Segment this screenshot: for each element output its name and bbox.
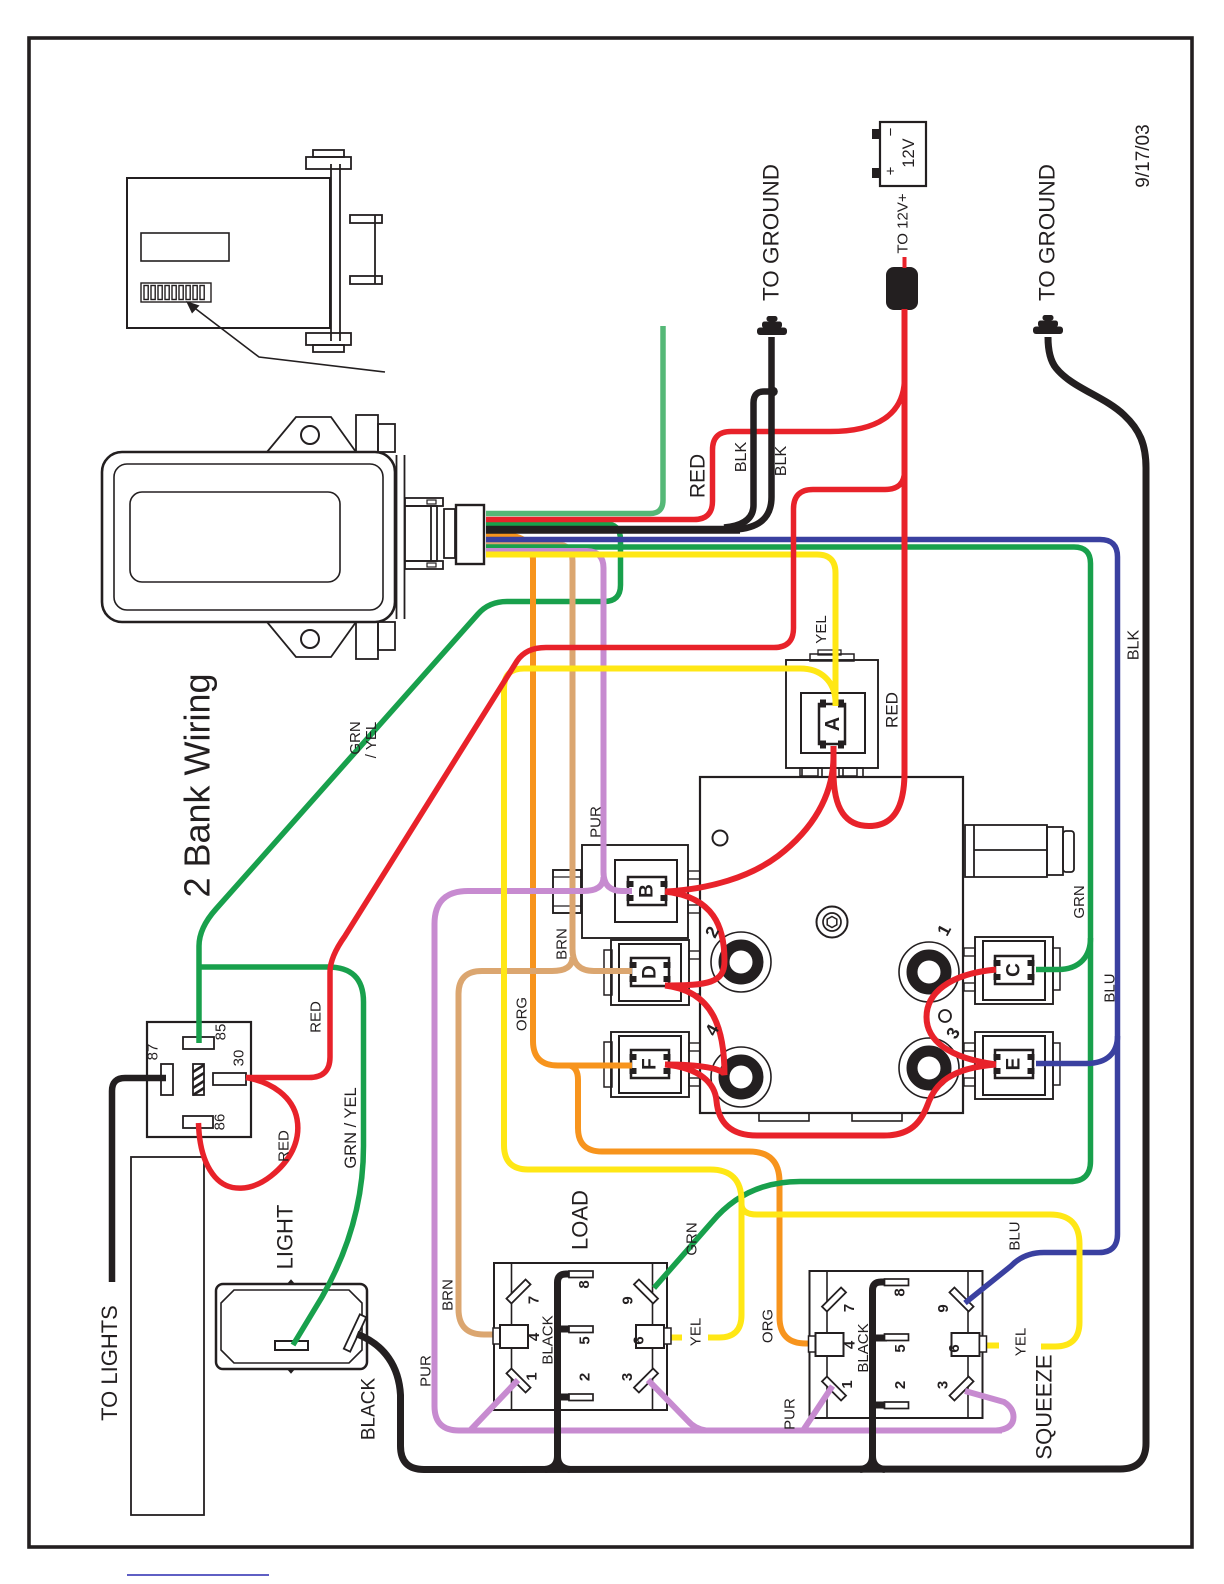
battery negative terminal bbox=[872, 129, 881, 139]
wire BLACK harness ground run bbox=[486, 526, 740, 534]
battery positive terminal bbox=[872, 168, 881, 178]
mounting rail right of control box bbox=[306, 150, 382, 352]
relay pin 30 bbox=[213, 1073, 246, 1085]
svg-text:85: 85 bbox=[213, 1024, 230, 1041]
port 1 bbox=[899, 942, 959, 1002]
wire RED feed to relay 30 bbox=[246, 471, 905, 1078]
svg-text:PUR: PUR bbox=[782, 1398, 799, 1430]
LOAD pin 6 box bbox=[636, 1325, 671, 1348]
svg-text:TO GROUND: TO GROUND bbox=[1035, 164, 1060, 301]
svg-text:BLK: BLK bbox=[1126, 630, 1143, 661]
svg-text:−: − bbox=[883, 127, 900, 136]
relay pin 85 bbox=[183, 1037, 214, 1049]
svg-text:YEL: YEL bbox=[813, 615, 830, 643]
relay pin 86 bbox=[183, 1116, 213, 1128]
wire PUR branch to SQUEEZE 1 bbox=[803, 1386, 833, 1431]
wire GRN harness to C coil and LOAD 9 (long green) bbox=[486, 547, 1091, 1288]
wire BLACK SQUEEZE bus tick pin2 bbox=[871, 1402, 887, 1409]
svg-text:E: E bbox=[1004, 1058, 1025, 1071]
connector shroud bbox=[405, 506, 437, 561]
LIGHT switch side terminal slot bbox=[344, 1314, 366, 1351]
valve top tabs bbox=[802, 768, 863, 777]
SQUEEZE pin 5 slot bbox=[885, 1334, 909, 1341]
svg-text:BLACK: BLACK bbox=[855, 1323, 872, 1372]
svg-text:30: 30 bbox=[231, 1050, 248, 1067]
wire YEL stub at SQUEEZE pin 6 bbox=[979, 1343, 999, 1349]
wire YEL A coil to LOAD 6 bbox=[504, 669, 836, 1338]
solenoid F bbox=[604, 1032, 700, 1097]
wire BLACK LOAD bus tick pin2 bbox=[556, 1394, 572, 1401]
wire GRN branch to C coil pin bbox=[1036, 938, 1091, 970]
SQUEEZE pin digits bbox=[839, 1288, 963, 1389]
receiver control box (top left) bbox=[127, 178, 330, 328]
valve bottom tabs bbox=[759, 1113, 902, 1121]
wire GRN/YEL harness to relay 85 bbox=[199, 524, 621, 1044]
wire BLACK SQUEEZE bus bbox=[873, 1282, 900, 1466]
svg-text:GRN / YEL: GRN / YEL bbox=[342, 1087, 360, 1168]
DIP switch pointer arrow bbox=[192, 306, 385, 372]
svg-text:2 Bank Wiring: 2 Bank Wiring bbox=[177, 673, 218, 897]
svg-text:F: F bbox=[640, 1058, 661, 1070]
svg-text:BLK: BLK bbox=[733, 442, 750, 473]
svg-text:GRN: GRN bbox=[347, 721, 364, 754]
wire BRN branch to LOAD 4 bbox=[459, 957, 573, 1335]
solenoid C bbox=[964, 937, 1060, 1004]
junction dot BLK bbox=[768, 387, 778, 397]
svg-text:ORG: ORG bbox=[514, 997, 531, 1031]
svg-text:RED: RED bbox=[687, 454, 710, 498]
wire RED B to D via port 2 bbox=[665, 892, 725, 986]
wire BLU branch to E coil pin bbox=[1036, 1036, 1118, 1064]
wire RED U-turn into A coil bbox=[834, 746, 905, 826]
relief valve cylinder bbox=[965, 825, 1074, 877]
svg-text:GRN: GRN bbox=[1071, 885, 1088, 918]
svg-text:/ YEL: / YEL bbox=[363, 722, 380, 758]
relay pin 87 bbox=[161, 1064, 173, 1095]
wire RED battery feed vertical bbox=[902, 309, 908, 778]
receiver module (2-bank control unit) bbox=[102, 452, 395, 622]
svg-text:PUR: PUR bbox=[418, 1355, 435, 1387]
svg-text:LIGHT: LIGHT bbox=[273, 1205, 298, 1270]
wire BLK to ground symbol bbox=[734, 337, 772, 530]
SQUEEZE pin 2 slot bbox=[885, 1402, 909, 1409]
module rear plate bbox=[397, 455, 405, 619]
wire PUR branch to LOAD 3 bbox=[648, 1380, 706, 1431]
svg-text:B: B bbox=[637, 884, 658, 898]
SQUEEZE pin 4 box bbox=[809, 1333, 844, 1356]
wire RED F to E under valve bbox=[665, 1065, 996, 1136]
svg-text:C: C bbox=[1004, 963, 1025, 977]
wire RED D to F via port 4 bbox=[665, 986, 725, 1076]
svg-text:GRN: GRN bbox=[684, 1222, 701, 1255]
svg-text:2: 2 bbox=[892, 1381, 909, 1389]
wire PUR branch to SQUEEZE 3 bbox=[965, 1391, 1014, 1431]
svg-text:1: 1 bbox=[839, 1380, 856, 1388]
wire BLACK relay 87 to lights bbox=[112, 1078, 166, 1282]
valve bank body bbox=[700, 777, 963, 1113]
svg-text:BLACK: BLACK bbox=[540, 1315, 557, 1364]
port 2 bbox=[711, 932, 771, 992]
solenoid B bbox=[553, 845, 700, 938]
port 4 bbox=[711, 1047, 771, 1107]
svg-text:9: 9 bbox=[935, 1304, 952, 1312]
svg-text:8: 8 bbox=[892, 1288, 909, 1296]
wire PUR branch to LOAD 1 bbox=[470, 1380, 518, 1431]
battery 12V bbox=[880, 122, 926, 186]
valve center bolt bbox=[817, 907, 848, 938]
wire BLACK LOAD bus tee fillets bbox=[545, 1456, 570, 1470]
svg-text:LOAD: LOAD bbox=[568, 1190, 593, 1250]
svg-text:BLU: BLU bbox=[1007, 1221, 1024, 1250]
ground symbol left (TO GROUND) bbox=[757, 316, 787, 335]
svg-text:RED: RED bbox=[308, 1001, 325, 1033]
svg-text:YEL: YEL bbox=[1013, 1328, 1030, 1356]
svg-text:BLU: BLU bbox=[1102, 973, 1119, 1002]
svg-text:9/17/03: 9/17/03 bbox=[1133, 124, 1154, 187]
svg-text:TO 12V+: TO 12V+ bbox=[895, 193, 912, 253]
SQUEEZE pin 3 slot bbox=[949, 1376, 973, 1400]
solenoid D bbox=[604, 940, 700, 1005]
svg-text:7: 7 bbox=[526, 1296, 543, 1304]
SQUEEZE pin 6 box bbox=[952, 1333, 987, 1356]
svg-text:8: 8 bbox=[576, 1280, 593, 1288]
wire RED E to C bbox=[927, 970, 997, 1065]
svg-text:3: 3 bbox=[935, 1381, 952, 1389]
SQUEEZE pin 7 slot bbox=[822, 1287, 846, 1311]
fuse holder on battery feed bbox=[886, 267, 918, 310]
svg-text:5: 5 bbox=[892, 1344, 909, 1352]
wire YEL stub at LOAD pin 6 bbox=[664, 1335, 682, 1341]
LOAD pin 3 slot bbox=[634, 1368, 658, 1392]
wire BLACK SQUEEZE bus tee fillets bbox=[860, 1456, 885, 1470]
LOAD pin 2 slot bbox=[569, 1394, 593, 1401]
wire RED jumper relay 30 to 86 bbox=[199, 1078, 298, 1189]
connector tab bbox=[444, 509, 455, 558]
wire BLACK SQUEEZE bus tick pin5 bbox=[871, 1335, 887, 1342]
hyperlink underline bottom bbox=[127, 1574, 269, 1576]
svg-text:6: 6 bbox=[631, 1336, 648, 1344]
port 3 bbox=[899, 1038, 959, 1098]
svg-text:RED: RED bbox=[276, 1130, 293, 1162]
light bar bbox=[131, 1157, 204, 1515]
svg-text:TO LIGHTS: TO LIGHTS bbox=[97, 1305, 122, 1421]
wire GRN/YEL branch to LIGHT switch bbox=[199, 967, 364, 1345]
LOAD pin digits bbox=[524, 1280, 648, 1381]
svg-text:YEL: YEL bbox=[688, 1318, 705, 1346]
LOAD pin 9 slot bbox=[634, 1279, 658, 1303]
LIGHT rocker switch bbox=[216, 1280, 367, 1373]
LOAD pin 8 slot bbox=[569, 1271, 593, 1278]
svg-text:D: D bbox=[640, 965, 661, 979]
svg-text:87: 87 bbox=[145, 1044, 162, 1061]
wire ORG harness to F coil bbox=[486, 536, 632, 1066]
wire PUR branch down to switches bbox=[435, 877, 604, 1431]
solenoid E bbox=[964, 1032, 1060, 1099]
SQUEEZE pin 8 slot bbox=[885, 1279, 909, 1286]
svg-text:6: 6 bbox=[946, 1344, 963, 1352]
svg-text:9: 9 bbox=[620, 1296, 637, 1304]
LOAD switch body bbox=[494, 1263, 667, 1410]
svg-text:BRN: BRN bbox=[554, 928, 571, 960]
svg-text:ORG: ORG bbox=[760, 1309, 777, 1343]
svg-text:+: + bbox=[883, 166, 900, 175]
LIGHT switch center terminal slot bbox=[275, 1341, 308, 1350]
valve pilot hole bbox=[713, 831, 728, 846]
LOAD pin 4 box bbox=[493, 1325, 528, 1348]
wire BLACK light switch to ground bus bbox=[357, 337, 1146, 1470]
relay K1 bbox=[147, 1022, 251, 1137]
wire ORG branch to SQUEEZE 4 bbox=[570, 1066, 818, 1344]
wire BLACK LOAD bus tick pin5 bbox=[556, 1326, 572, 1333]
wire RED A coil to B coil bbox=[666, 750, 834, 892]
svg-text:BRN: BRN bbox=[440, 1279, 457, 1311]
SQUEEZE pin 1 slot bbox=[822, 1376, 846, 1400]
module bottom mounting tab bbox=[267, 622, 395, 659]
valve small circle near port 3 bbox=[939, 1010, 951, 1022]
harness plug bbox=[456, 505, 484, 564]
svg-text:BLK: BLK bbox=[773, 446, 790, 477]
wire BLACK LOAD bus bbox=[558, 1274, 585, 1466]
wire BLK jumper to junction bbox=[724, 392, 770, 528]
relay common pin (hatched) bbox=[193, 1064, 204, 1095]
svg-text:12V: 12V bbox=[900, 138, 918, 167]
wire GRN/YEL antenna (light green, open end) bbox=[486, 326, 663, 514]
wire BLU harness to E coil and SQUEEZE 9 bbox=[486, 540, 1118, 1304]
wire BRN harness to D coil bbox=[486, 544, 632, 971]
SQUEEZE pin 9 slot bbox=[949, 1287, 973, 1311]
module top mounting tab bbox=[267, 415, 395, 452]
wire PUR harness to B coil bbox=[486, 551, 632, 891]
svg-text:3: 3 bbox=[619, 1373, 636, 1381]
svg-text:RED: RED bbox=[883, 692, 902, 728]
LOAD pin 1 slot bbox=[506, 1368, 530, 1392]
connector bracket bottom bbox=[405, 561, 443, 569]
LOAD pin 7 slot bbox=[506, 1279, 530, 1303]
svg-text:TO GROUND: TO GROUND bbox=[759, 164, 784, 301]
LOAD pin 5 slot bbox=[569, 1326, 593, 1333]
svg-text:1: 1 bbox=[524, 1372, 541, 1380]
svg-text:2: 2 bbox=[577, 1373, 594, 1381]
svg-text:86: 86 bbox=[212, 1114, 229, 1131]
ground symbol right (TO GROUND) bbox=[1033, 315, 1063, 334]
svg-text:A: A bbox=[822, 717, 844, 731]
SQUEEZE switch body bbox=[810, 1271, 983, 1418]
svg-text:BLACK: BLACK bbox=[359, 1378, 380, 1441]
wire YEL harness to A coil bbox=[486, 555, 836, 707]
wire RED harness to battery feed bbox=[486, 378, 905, 520]
wire PUR bottom bus bbox=[466, 1428, 1002, 1434]
svg-text:SQUEEZE: SQUEEZE bbox=[1032, 1354, 1057, 1459]
svg-text:7: 7 bbox=[841, 1304, 858, 1312]
connector bracket top bbox=[405, 498, 443, 506]
svg-text:5: 5 bbox=[577, 1336, 594, 1344]
svg-text:PUR: PUR bbox=[588, 806, 605, 838]
DIP switch block on control box bbox=[141, 283, 211, 302]
solenoid A bbox=[786, 650, 878, 776]
wire YEL link LOAD 6 to SQUEEZE 6 bbox=[742, 1204, 1080, 1347]
